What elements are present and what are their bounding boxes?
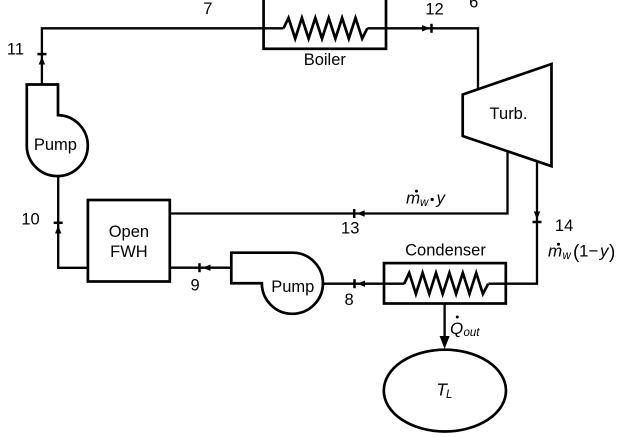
svg-text:Pump: Pump — [34, 136, 77, 154]
svg-text:−: − — [589, 242, 599, 261]
svg-text:7: 7 — [203, 0, 212, 18]
svg-text:Pump: Pump — [271, 278, 314, 296]
svg-text:14: 14 — [555, 217, 573, 235]
svg-text:m: m — [548, 242, 562, 261]
svg-text:w: w — [563, 250, 572, 262]
svg-text:Boiler: Boiler — [304, 51, 347, 69]
svg-text:FWH: FWH — [110, 243, 148, 261]
svg-text:Q: Q — [450, 319, 463, 338]
svg-text:8: 8 — [345, 291, 354, 309]
svg-text:Turb.: Turb. — [490, 105, 528, 123]
svg-text:12: 12 — [425, 1, 443, 19]
svg-text:m: m — [406, 189, 420, 208]
svg-text:6: 6 — [469, 0, 478, 12]
svg-text:Open: Open — [109, 223, 149, 241]
svg-text:L: L — [446, 389, 452, 401]
svg-text:out: out — [464, 327, 481, 339]
svg-text:Condenser: Condenser — [405, 242, 486, 260]
svg-text:10: 10 — [21, 211, 39, 229]
svg-text:11: 11 — [7, 40, 24, 58]
svg-text:1: 1 — [579, 242, 588, 261]
svg-text:w: w — [420, 197, 429, 209]
svg-text:y: y — [436, 189, 447, 208]
svg-text:9: 9 — [191, 277, 200, 295]
svg-text:): ) — [609, 242, 615, 263]
svg-text:13: 13 — [341, 220, 359, 238]
